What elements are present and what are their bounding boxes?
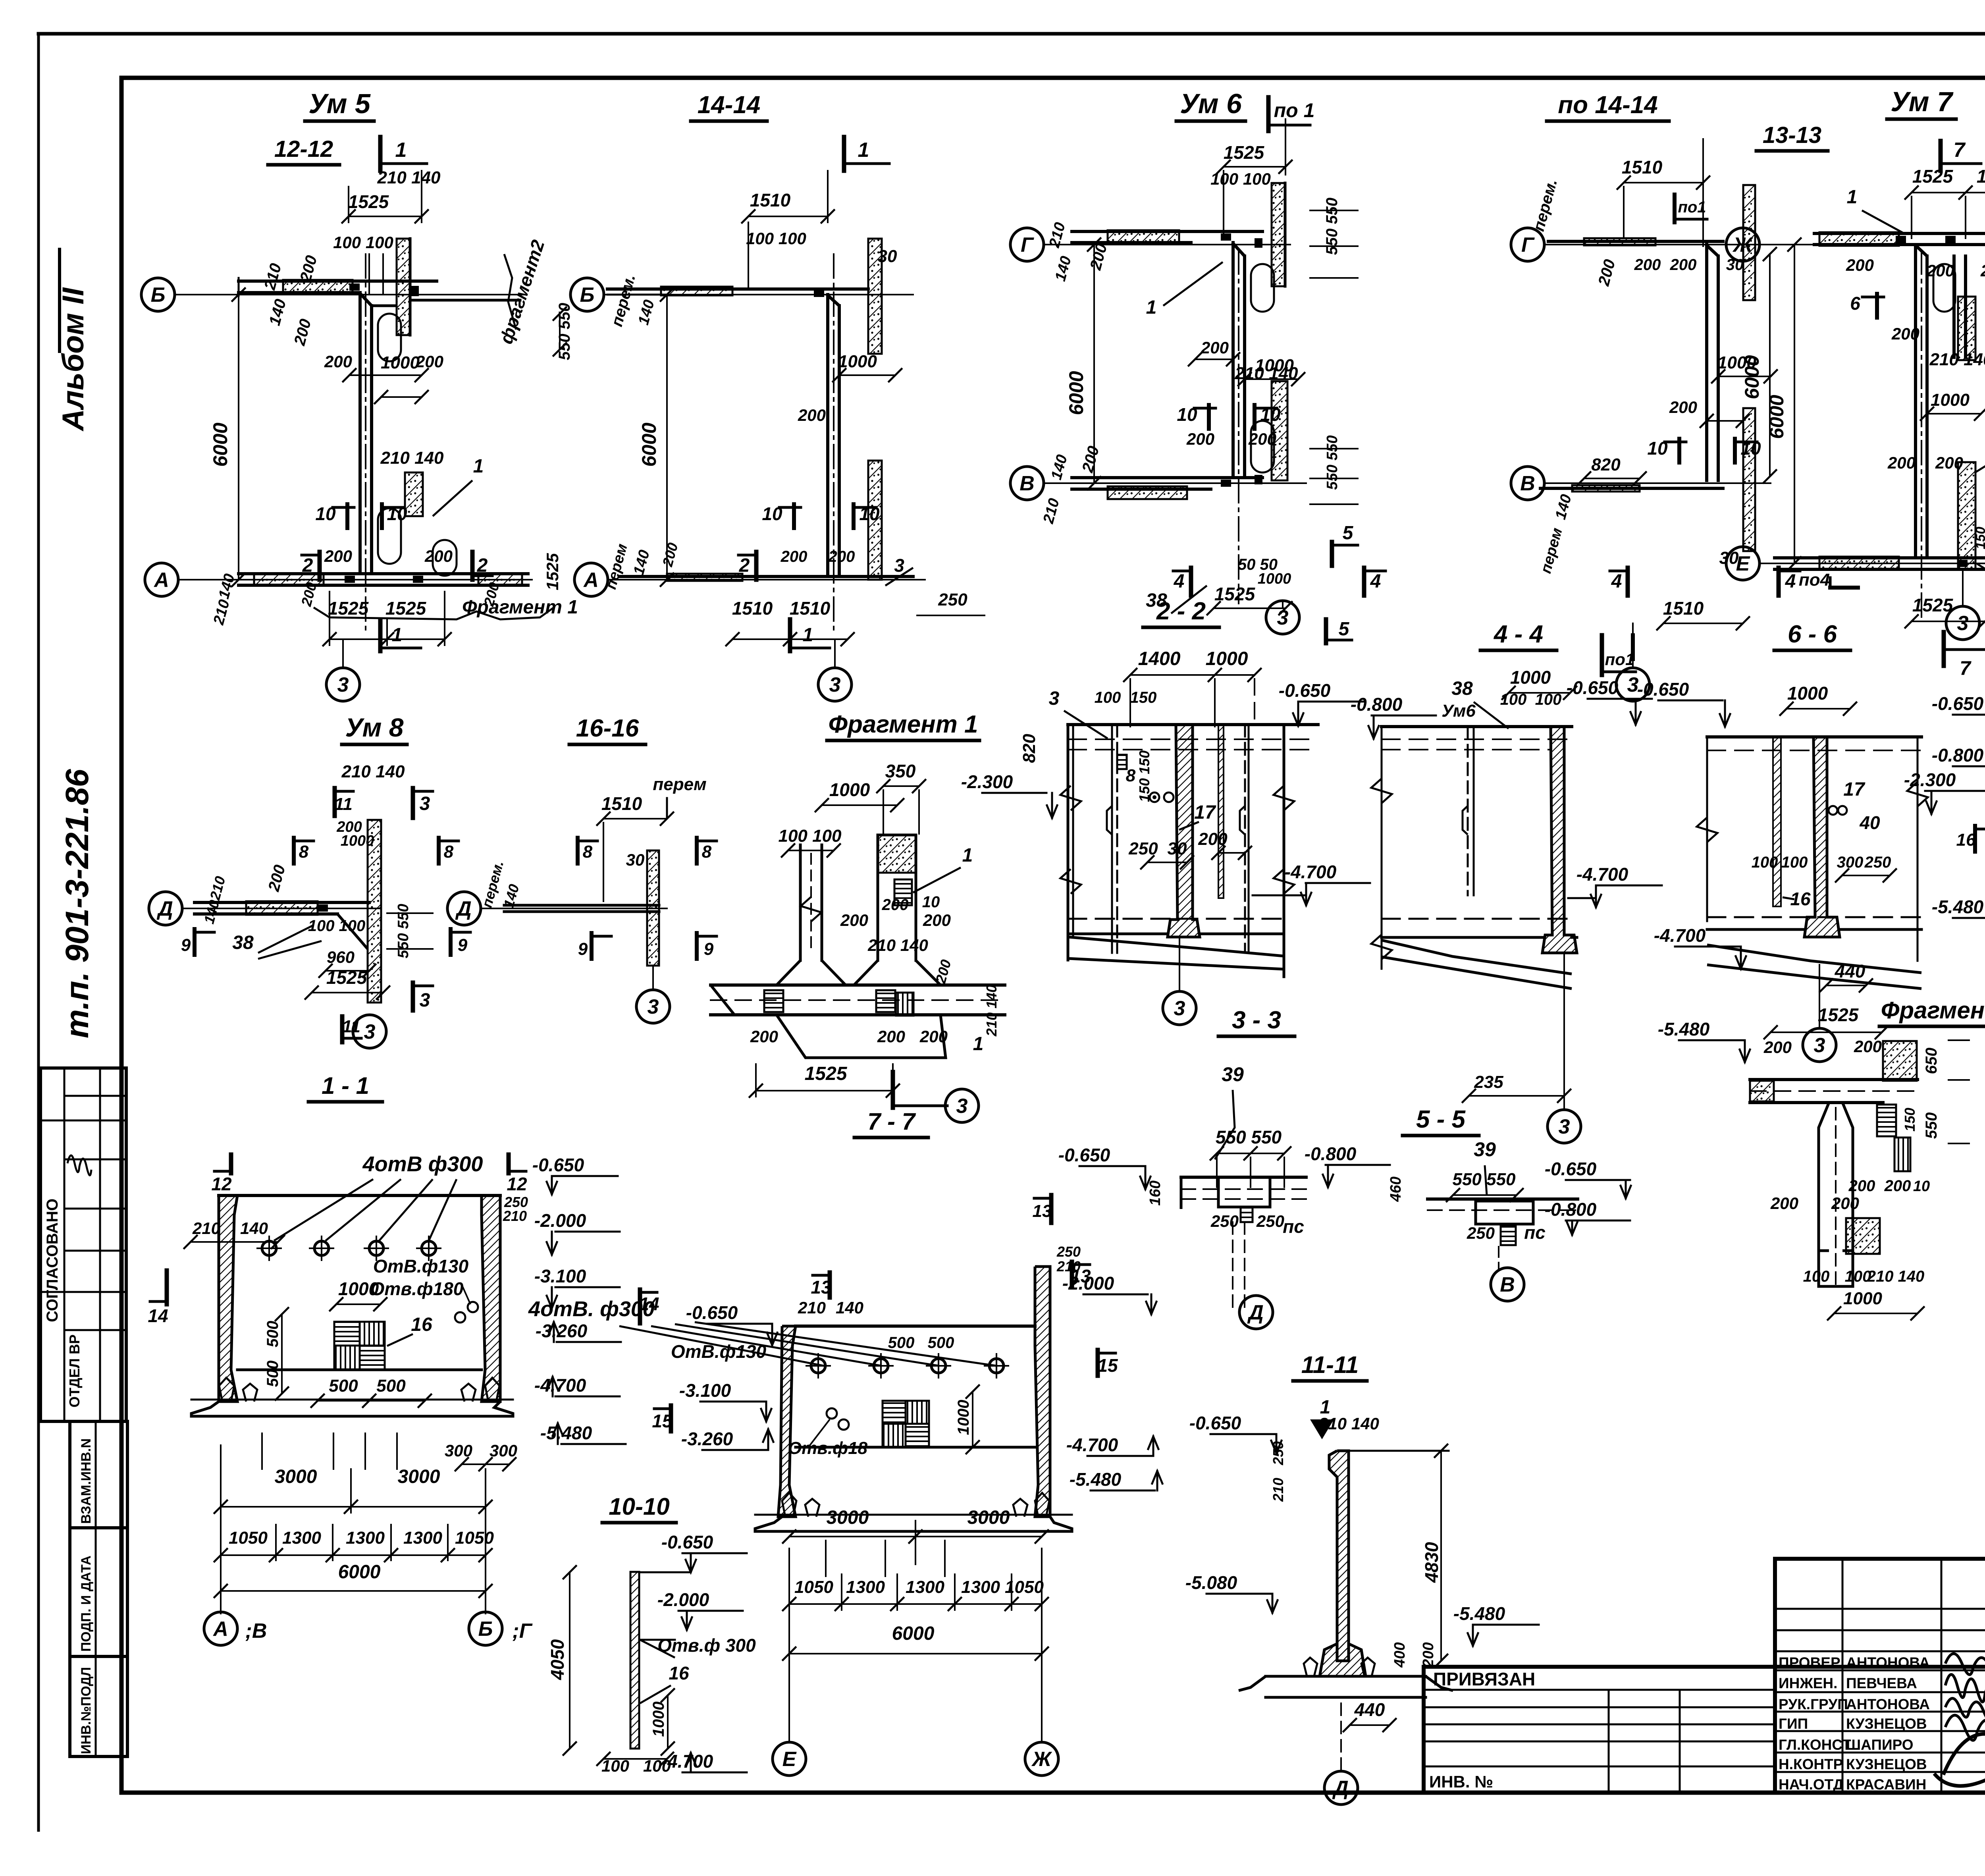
svg-text:3: 3: [337, 673, 349, 696]
2-2 axis line down: [1179, 937, 1180, 991]
svg-text:3: 3: [1174, 997, 1185, 1020]
8-8 16 marks: [1973, 826, 1977, 852]
svg-text:10-10: 10-10: [609, 1493, 669, 1520]
svg-text:550 550: 550 550: [1216, 1127, 1282, 1147]
svg-text:210: 210: [983, 1012, 1000, 1037]
svg-text:Ум 8: Ум 8: [345, 713, 404, 742]
svg-text:4830: 4830: [1421, 1542, 1442, 1583]
section mark 1 top: [378, 137, 383, 171]
svg-text:3000: 3000: [967, 1507, 1010, 1528]
svg-text:1000: 1000: [1206, 648, 1248, 669]
2-2 inner precast wall left: [1111, 725, 1113, 953]
Ум7 web centerline: [1921, 250, 1922, 619]
svg-text:-0.650: -0.650: [661, 1532, 713, 1552]
svg-text:39: 39: [1222, 1063, 1244, 1085]
svg-text:1: 1: [858, 139, 869, 162]
svg-text:4: 4: [1370, 571, 1381, 592]
svg-text:10: 10: [922, 893, 940, 911]
svg-text:200: 200: [1670, 256, 1697, 274]
big tank 12 marks: [229, 1155, 233, 1173]
svg-text:1000: 1000: [1258, 571, 1291, 587]
fragment2 band: [1750, 1078, 1918, 1081]
svg-text:-0.650: -0.650: [1567, 677, 1619, 698]
svg-text:;Г: ;Г: [512, 1620, 532, 1643]
svg-text:500: 500: [928, 1334, 954, 1352]
lower stamp boxes: [70, 1421, 127, 1528]
svg-text:300: 300: [490, 1441, 517, 1460]
svg-text:210: 210: [503, 1208, 527, 1224]
svg-text:3: 3: [1957, 612, 1969, 635]
svg-text:-4.700: -4.700: [1066, 1434, 1118, 1455]
svg-text:-4.700: -4.700: [534, 1375, 586, 1396]
axis circles Е Ж: [773, 1742, 806, 1776]
Ум6 web centerline: [1238, 250, 1239, 603]
svg-text:-2.000: -2.000: [657, 1589, 709, 1610]
Ум6 embed plates: [1221, 233, 1231, 241]
svg-text:Фрагмент 1: Фрагмент 1: [829, 711, 978, 738]
svg-text:200: 200: [424, 547, 453, 565]
svg-text:12-12: 12-12: [274, 136, 333, 162]
fragment1 left column: [799, 845, 802, 960]
11-11 base: [1320, 1644, 1366, 1676]
title block main frame: [1424, 1667, 1985, 1793]
svg-text:3: 3: [648, 995, 659, 1018]
Ум6 bottom flange: [1072, 476, 1262, 479]
svg-text:-5.080: -5.080: [1185, 1572, 1237, 1593]
6-6 base slopes: [1707, 945, 1921, 973]
Ум8 diagonal join: [337, 914, 368, 949]
svg-text:200: 200: [1846, 256, 1874, 274]
axis circle А: [145, 563, 178, 596]
svg-text:14: 14: [148, 1305, 168, 1326]
svg-text:200: 200: [750, 1027, 778, 1046]
axis line А: [178, 579, 532, 580]
svg-text:1525: 1525: [543, 553, 562, 590]
svg-text:НАЧ.ОТД: НАЧ.ОТД: [1779, 1776, 1844, 1793]
svg-text:200: 200: [919, 1027, 948, 1046]
16-16 flange thin: [504, 904, 659, 907]
svg-text:200: 200: [1770, 1194, 1798, 1213]
svg-text:16: 16: [1956, 830, 1976, 850]
svg-text:по4: по4: [1799, 570, 1830, 590]
svg-text:1300: 1300: [906, 1577, 944, 1597]
svg-text:1510: 1510: [790, 598, 831, 619]
svg-text:1525: 1525: [805, 1063, 848, 1084]
svg-text:1525: 1525: [1912, 166, 1954, 187]
svg-text:-5.480: -5.480: [1453, 1603, 1505, 1624]
svg-text:1: 1: [395, 139, 407, 162]
svg-text:2: 2: [477, 555, 488, 576]
svg-text:500: 500: [329, 1376, 358, 1396]
svg-text:3: 3: [364, 1020, 376, 1043]
svg-text:38: 38: [1451, 678, 1473, 699]
Ум6 5 marks: [1330, 542, 1334, 566]
4-4 inner dashed wall: [1467, 727, 1469, 895]
2-2 bolt symbols: [1150, 792, 1159, 802]
svg-text:Д: Д: [1247, 1301, 1264, 1324]
Ум7 embed plates: [1896, 236, 1906, 243]
svg-text:13: 13: [1033, 1201, 1052, 1221]
svg-text:3: 3: [1277, 606, 1289, 629]
svg-text:6: 6: [1850, 293, 1860, 314]
svg-text:10: 10: [1177, 404, 1197, 425]
svg-text:6000: 6000: [209, 422, 231, 467]
fragment2 anchor blocks: [1877, 1105, 1896, 1136]
svg-text:-3.260: -3.260: [536, 1321, 588, 1341]
svg-text:200: 200: [1980, 261, 1985, 280]
svg-text:2: 2: [302, 555, 313, 576]
svg-text:210 140: 210 140: [377, 168, 441, 187]
svg-text:Б: Б: [580, 283, 595, 307]
tank2 holes: [811, 1359, 825, 1373]
svg-text:3: 3: [420, 990, 430, 1011]
svg-text:210 140: 210 140: [1929, 350, 1985, 369]
svg-text:10: 10: [762, 503, 782, 524]
svg-text:1: 1: [973, 1033, 984, 1055]
Ум6 4 marks: [1189, 568, 1193, 596]
svg-text:1: 1: [962, 845, 973, 866]
svg-text:ИНВ.№ПОДЛ: ИНВ.№ПОДЛ: [79, 1667, 94, 1754]
vertical dimension 6000: [1093, 245, 1095, 483]
svg-text:-2.000: -2.000: [534, 1210, 586, 1231]
svg-text:30: 30: [1168, 839, 1187, 858]
по14-14 4 marks: [1626, 568, 1630, 596]
svg-text:-0.650: -0.650: [1279, 680, 1331, 701]
svg-text:3: 3: [420, 793, 430, 814]
svg-text:500: 500: [264, 1321, 281, 1348]
svg-text:В: В: [1019, 472, 1035, 495]
svg-text:-5.480: -5.480: [540, 1423, 592, 1443]
svg-text:3: 3: [1814, 1034, 1825, 1057]
axis circle В: [1010, 467, 1044, 500]
svg-text:200: 200: [1186, 430, 1214, 448]
svg-text:200: 200: [1891, 324, 1919, 343]
svg-text:550: 550: [1923, 1112, 1940, 1139]
svg-text:СОГЛАСОВАНО: СОГЛАСОВАНО: [44, 1199, 61, 1322]
svg-text:3000: 3000: [398, 1466, 440, 1487]
Ум5 anchor block: [405, 472, 423, 516]
svg-text:200: 200: [1634, 256, 1661, 274]
svg-text:200: 200: [781, 548, 807, 565]
svg-text:А: А: [153, 569, 169, 592]
Ум5 section marks 10: [345, 504, 349, 528]
svg-text:1400: 1400: [1138, 648, 1181, 669]
big tank hatch block 16: [334, 1322, 360, 1346]
svg-text:1 - 1: 1 - 1: [322, 1072, 369, 1099]
svg-text:500: 500: [376, 1376, 406, 1396]
svg-text:1300: 1300: [961, 1577, 1000, 1597]
2-2 left wall: [1067, 725, 1070, 960]
svg-text:6000: 6000: [638, 422, 660, 467]
svg-text:10: 10: [1647, 438, 1668, 459]
svg-text:5 - 5: 5 - 5: [1416, 1106, 1466, 1133]
PS right dashed legs: [1498, 1247, 1499, 1269]
Ум8 8 marks: [292, 838, 296, 864]
Ум7 bottom flange: [1775, 556, 1985, 559]
svg-text:-0.650: -0.650: [1637, 679, 1689, 700]
svg-text:-4.700: -4.700: [1576, 864, 1628, 885]
svg-text:440: 440: [1835, 961, 1866, 981]
6-6 central wall hatched: [1804, 737, 1840, 937]
6-6 7 mark: [1942, 632, 1946, 666]
svg-text:АНТОНОВА: АНТОНОВА: [1846, 1654, 1930, 1671]
svg-text:-0.650: -0.650: [1932, 693, 1984, 714]
svg-text:1000: 1000: [955, 1400, 972, 1435]
2-2 dashed water lines: [1068, 738, 1318, 740]
svg-text:1510: 1510: [1622, 157, 1663, 177]
svg-text:140: 140: [836, 1298, 863, 1317]
vertical dimension 6000 right: [1769, 254, 1771, 476]
svg-text:210 140: 210 140: [341, 762, 405, 781]
4-4 left break line: [1381, 727, 1383, 969]
svg-text:6000: 6000: [338, 1562, 381, 1583]
svg-text:1000: 1000: [381, 353, 420, 372]
svg-text:8: 8: [444, 842, 454, 862]
section mark 1 top: [842, 137, 846, 171]
svg-text:11: 11: [334, 794, 353, 814]
svg-text:8: 8: [299, 842, 309, 862]
fragment2 wall down: [1819, 1103, 1829, 1251]
svg-text:ВЗАМ.ИНВ.N: ВЗАМ.ИНВ.N: [79, 1438, 94, 1524]
tank2 right wall hatched: [1035, 1267, 1050, 1517]
svg-text:пс: пс: [1524, 1222, 1546, 1243]
svg-text:Ж: Ж: [1732, 233, 1754, 256]
svg-text:11-11: 11-11: [1301, 1352, 1359, 1378]
axis circle 3 под Ум7: [1962, 572, 1964, 606]
svg-text:200: 200: [840, 911, 868, 929]
Ум7 по4 marks: [1830, 586, 1858, 590]
svg-text:-3.100: -3.100: [679, 1380, 731, 1401]
svg-text:1000: 1000: [1787, 683, 1828, 704]
svg-text:9: 9: [578, 939, 588, 959]
svg-text:250: 250: [1256, 1212, 1284, 1230]
svg-text:КУЗНЕЦОВ: КУЗНЕЦОВ: [1846, 1756, 1927, 1772]
PS left slab: [1181, 1176, 1306, 1179]
axis circle Д 16-16: [447, 892, 481, 925]
approval stamp table: [40, 1068, 126, 1421]
svg-text:-2.300: -2.300: [1904, 769, 1956, 790]
svg-text:1525: 1525: [1818, 1005, 1859, 1025]
axis circle 3 под 16-16: [652, 966, 654, 989]
svg-text:9: 9: [181, 935, 191, 955]
svg-text:350: 350: [885, 761, 916, 781]
title block staff table: [1775, 1559, 1985, 1793]
svg-text:200: 200: [324, 352, 352, 371]
axis circle 3 под Ум8: [353, 1015, 386, 1048]
11-11 1 callout: [1310, 1419, 1334, 1439]
axis circle 3 fragment1: [945, 1089, 979, 1122]
axis circle 3 under Ум5: [342, 639, 344, 668]
Ум6 top right wall: [1272, 183, 1285, 286]
Ум8 3 mark top: [411, 788, 415, 818]
axis circle 3 под 6-6: [1803, 1028, 1836, 1062]
svg-text:-3.260: -3.260: [681, 1429, 733, 1449]
svg-text:-2.000: -2.000: [1062, 1273, 1114, 1294]
Ум8 9 marks: [193, 929, 197, 955]
svg-text:4: 4: [1785, 571, 1796, 592]
tank2 hatch block 16: [883, 1401, 906, 1424]
svg-text:ГИП: ГИП: [1779, 1716, 1808, 1732]
по14-14 section marks 10: [1677, 439, 1681, 463]
svg-text:4отВ. ф300: 4отВ. ф300: [528, 1297, 655, 1321]
svg-text:8: 8: [1126, 766, 1136, 785]
svg-text:1000: 1000: [341, 833, 374, 849]
svg-text:7: 7: [1954, 139, 1966, 162]
big tank left wall hatched: [219, 1195, 237, 1402]
svg-text:по 14-14: по 14-14: [1558, 91, 1658, 119]
svg-text:1510: 1510: [732, 598, 773, 619]
svg-text:ИНВ. №: ИНВ. №: [1429, 1772, 1493, 1791]
svg-text:100 100: 100 100: [1210, 170, 1271, 188]
svg-text:210 140: 210 140: [1318, 1414, 1379, 1433]
PS left 13 mark: [1049, 1195, 1054, 1223]
2-2 right wall lines: [1244, 725, 1246, 953]
svg-text:100: 100: [1095, 689, 1121, 706]
svg-text:1000: 1000: [838, 352, 877, 371]
svg-text:т.п. 901-3-221.86: т.п. 901-3-221.86: [59, 769, 95, 1038]
svg-text:-0.650: -0.650: [1058, 1145, 1110, 1165]
svg-text:6000: 6000: [892, 1623, 935, 1644]
по14-14 web: [1705, 245, 1708, 480]
по14-14 bottom right wall: [1743, 408, 1755, 551]
svg-text:3: 3: [956, 1095, 968, 1118]
big tank holes: [262, 1241, 276, 1255]
svg-text:Н.КОНТР: Н.КОНТР: [1779, 1756, 1843, 1772]
axis circle Д под PS left: [1239, 1296, 1273, 1329]
vertical dimension 6000: [666, 295, 668, 580]
2-2 precast panel right: [1218, 725, 1224, 898]
svg-text:-4.700: -4.700: [1285, 862, 1337, 882]
svg-text:150 150: 150 150: [1136, 750, 1152, 802]
svg-text:210 140: 210 140: [1234, 364, 1298, 383]
svg-text:Ум 7: Ум 7: [1891, 86, 1954, 117]
axis circle 3 под по14-14: [1632, 623, 1634, 668]
svg-text:Д: Д: [455, 897, 472, 920]
svg-text:по 1: по 1: [1274, 99, 1315, 121]
Ум6 lower hatch wall: [1272, 381, 1287, 480]
Ум8 11 mark top: [333, 788, 337, 816]
svg-text:1300: 1300: [282, 1528, 321, 1548]
14-14 top flange: [607, 287, 868, 291]
svg-text:ОтВ.ф130: ОтВ.ф130: [373, 1256, 469, 1276]
svg-text:250: 250: [1467, 1224, 1495, 1242]
svg-text:ШАПИРО: ШАПИРО: [1846, 1737, 1914, 1753]
svg-text:150: 150: [1130, 689, 1157, 706]
svg-text:-2.300: -2.300: [961, 771, 1013, 792]
svg-text:КУЗНЕЦОВ: КУЗНЕЦОВ: [1846, 1716, 1927, 1732]
4-4 bottom slab: [1382, 936, 1542, 939]
svg-text:100: 100: [1535, 691, 1562, 708]
svg-text:100: 100: [1500, 691, 1527, 708]
svg-text:1000: 1000: [1717, 353, 1756, 372]
svg-text:12: 12: [211, 1174, 232, 1194]
6-6 left break line: [1706, 737, 1708, 921]
svg-text:200: 200: [1201, 338, 1229, 357]
svg-text:250: 250: [1210, 1212, 1239, 1230]
6-6 precast panel: [1773, 737, 1781, 906]
svg-text:9: 9: [458, 935, 468, 955]
svg-text:200: 200: [1420, 1642, 1437, 1668]
svg-text:210 140: 210 140: [1867, 1268, 1925, 1285]
svg-text:550 550: 550 550: [1452, 1170, 1516, 1189]
svg-text:ОтВ.ф130: ОтВ.ф130: [671, 1341, 767, 1362]
Ум8 embed plate: [318, 904, 328, 912]
axis circle Б: [141, 278, 175, 311]
svg-text:1000: 1000: [1931, 390, 1970, 410]
svg-text:6 - 6: 6 - 6: [1788, 621, 1837, 648]
Ум5 section marks 2: [318, 552, 322, 580]
svg-text:200: 200: [1198, 829, 1228, 849]
10-10 wall: [630, 1572, 639, 1749]
svg-text:200: 200: [1926, 261, 1954, 280]
tank2 15 marks: [669, 1406, 673, 1431]
svg-text:А: А: [212, 1618, 228, 1641]
big tank floor line: [237, 1369, 482, 1371]
svg-text:1000: 1000: [1843, 1289, 1882, 1308]
svg-text:12: 12: [507, 1174, 527, 1194]
axis circle 3 под 4-4: [1548, 1110, 1581, 1143]
fragment2 top hatch block: [1883, 1041, 1917, 1081]
svg-text:200: 200: [1884, 1177, 1911, 1195]
tank2 base: [755, 1517, 1072, 1531]
svg-text:200: 200: [828, 548, 855, 565]
svg-text:-0.650: -0.650: [1189, 1413, 1241, 1433]
tank2 top edge: [796, 1325, 1035, 1328]
по14-14 bottom flange: [1540, 487, 1723, 490]
14-14 right wall: [868, 239, 882, 354]
svg-text:Фрагмент 2: Фрагмент 2: [1881, 997, 1985, 1024]
svg-text:АНТОНОВА: АНТОНОВА: [1846, 1696, 1930, 1712]
section mark 7 top: [1939, 141, 1943, 171]
svg-text:15: 15: [652, 1411, 673, 1431]
svg-text:6000: 6000: [1065, 371, 1087, 415]
svg-text:1050: 1050: [229, 1528, 268, 1548]
svg-text:15: 15: [1097, 1355, 1118, 1376]
svg-text:Ум 5: Ум 5: [308, 88, 371, 119]
svg-text:100 100: 100 100: [333, 233, 393, 252]
svg-text:4 - 4: 4 - 4: [1493, 621, 1543, 648]
svg-text:-5.480: -5.480: [1658, 1019, 1710, 1039]
svg-text:1300: 1300: [846, 1577, 885, 1597]
Ум8 bottom marks: [411, 983, 415, 1010]
svg-text:3 - 3: 3 - 3: [1232, 1006, 1281, 1034]
big tank 14 marks: [165, 1271, 169, 1304]
svg-text:5: 5: [1339, 619, 1350, 640]
14-14 2 marks: [754, 552, 759, 580]
svg-text:210 140: 210 140: [867, 936, 928, 954]
svg-text:210: 210: [1056, 1258, 1081, 1274]
svg-text:150: 150: [1902, 1108, 1918, 1132]
signature mark: [67, 1155, 91, 1175]
svg-text:16-16: 16-16: [576, 715, 639, 742]
Ум8 flange: [195, 901, 369, 904]
PS right slab: [1428, 1197, 1578, 1201]
svg-text:1525: 1525: [348, 191, 389, 212]
Ум7 center hatch block: [1958, 297, 1975, 360]
svg-text:30: 30: [626, 850, 645, 869]
big tank base: [191, 1402, 513, 1416]
svg-text:1: 1: [473, 456, 484, 477]
svg-text:100: 100: [1803, 1268, 1830, 1285]
svg-text:1525: 1525: [1977, 166, 1985, 187]
svg-text:440: 440: [1354, 1699, 1385, 1720]
svg-text:1525: 1525: [328, 598, 369, 619]
svg-text:-3.100: -3.100: [534, 1266, 586, 1286]
svg-text:30: 30: [878, 247, 897, 266]
svg-text:250: 250: [1056, 1244, 1081, 1260]
svg-text:500: 500: [264, 1361, 281, 1387]
14-14 embed plates: [814, 291, 824, 297]
